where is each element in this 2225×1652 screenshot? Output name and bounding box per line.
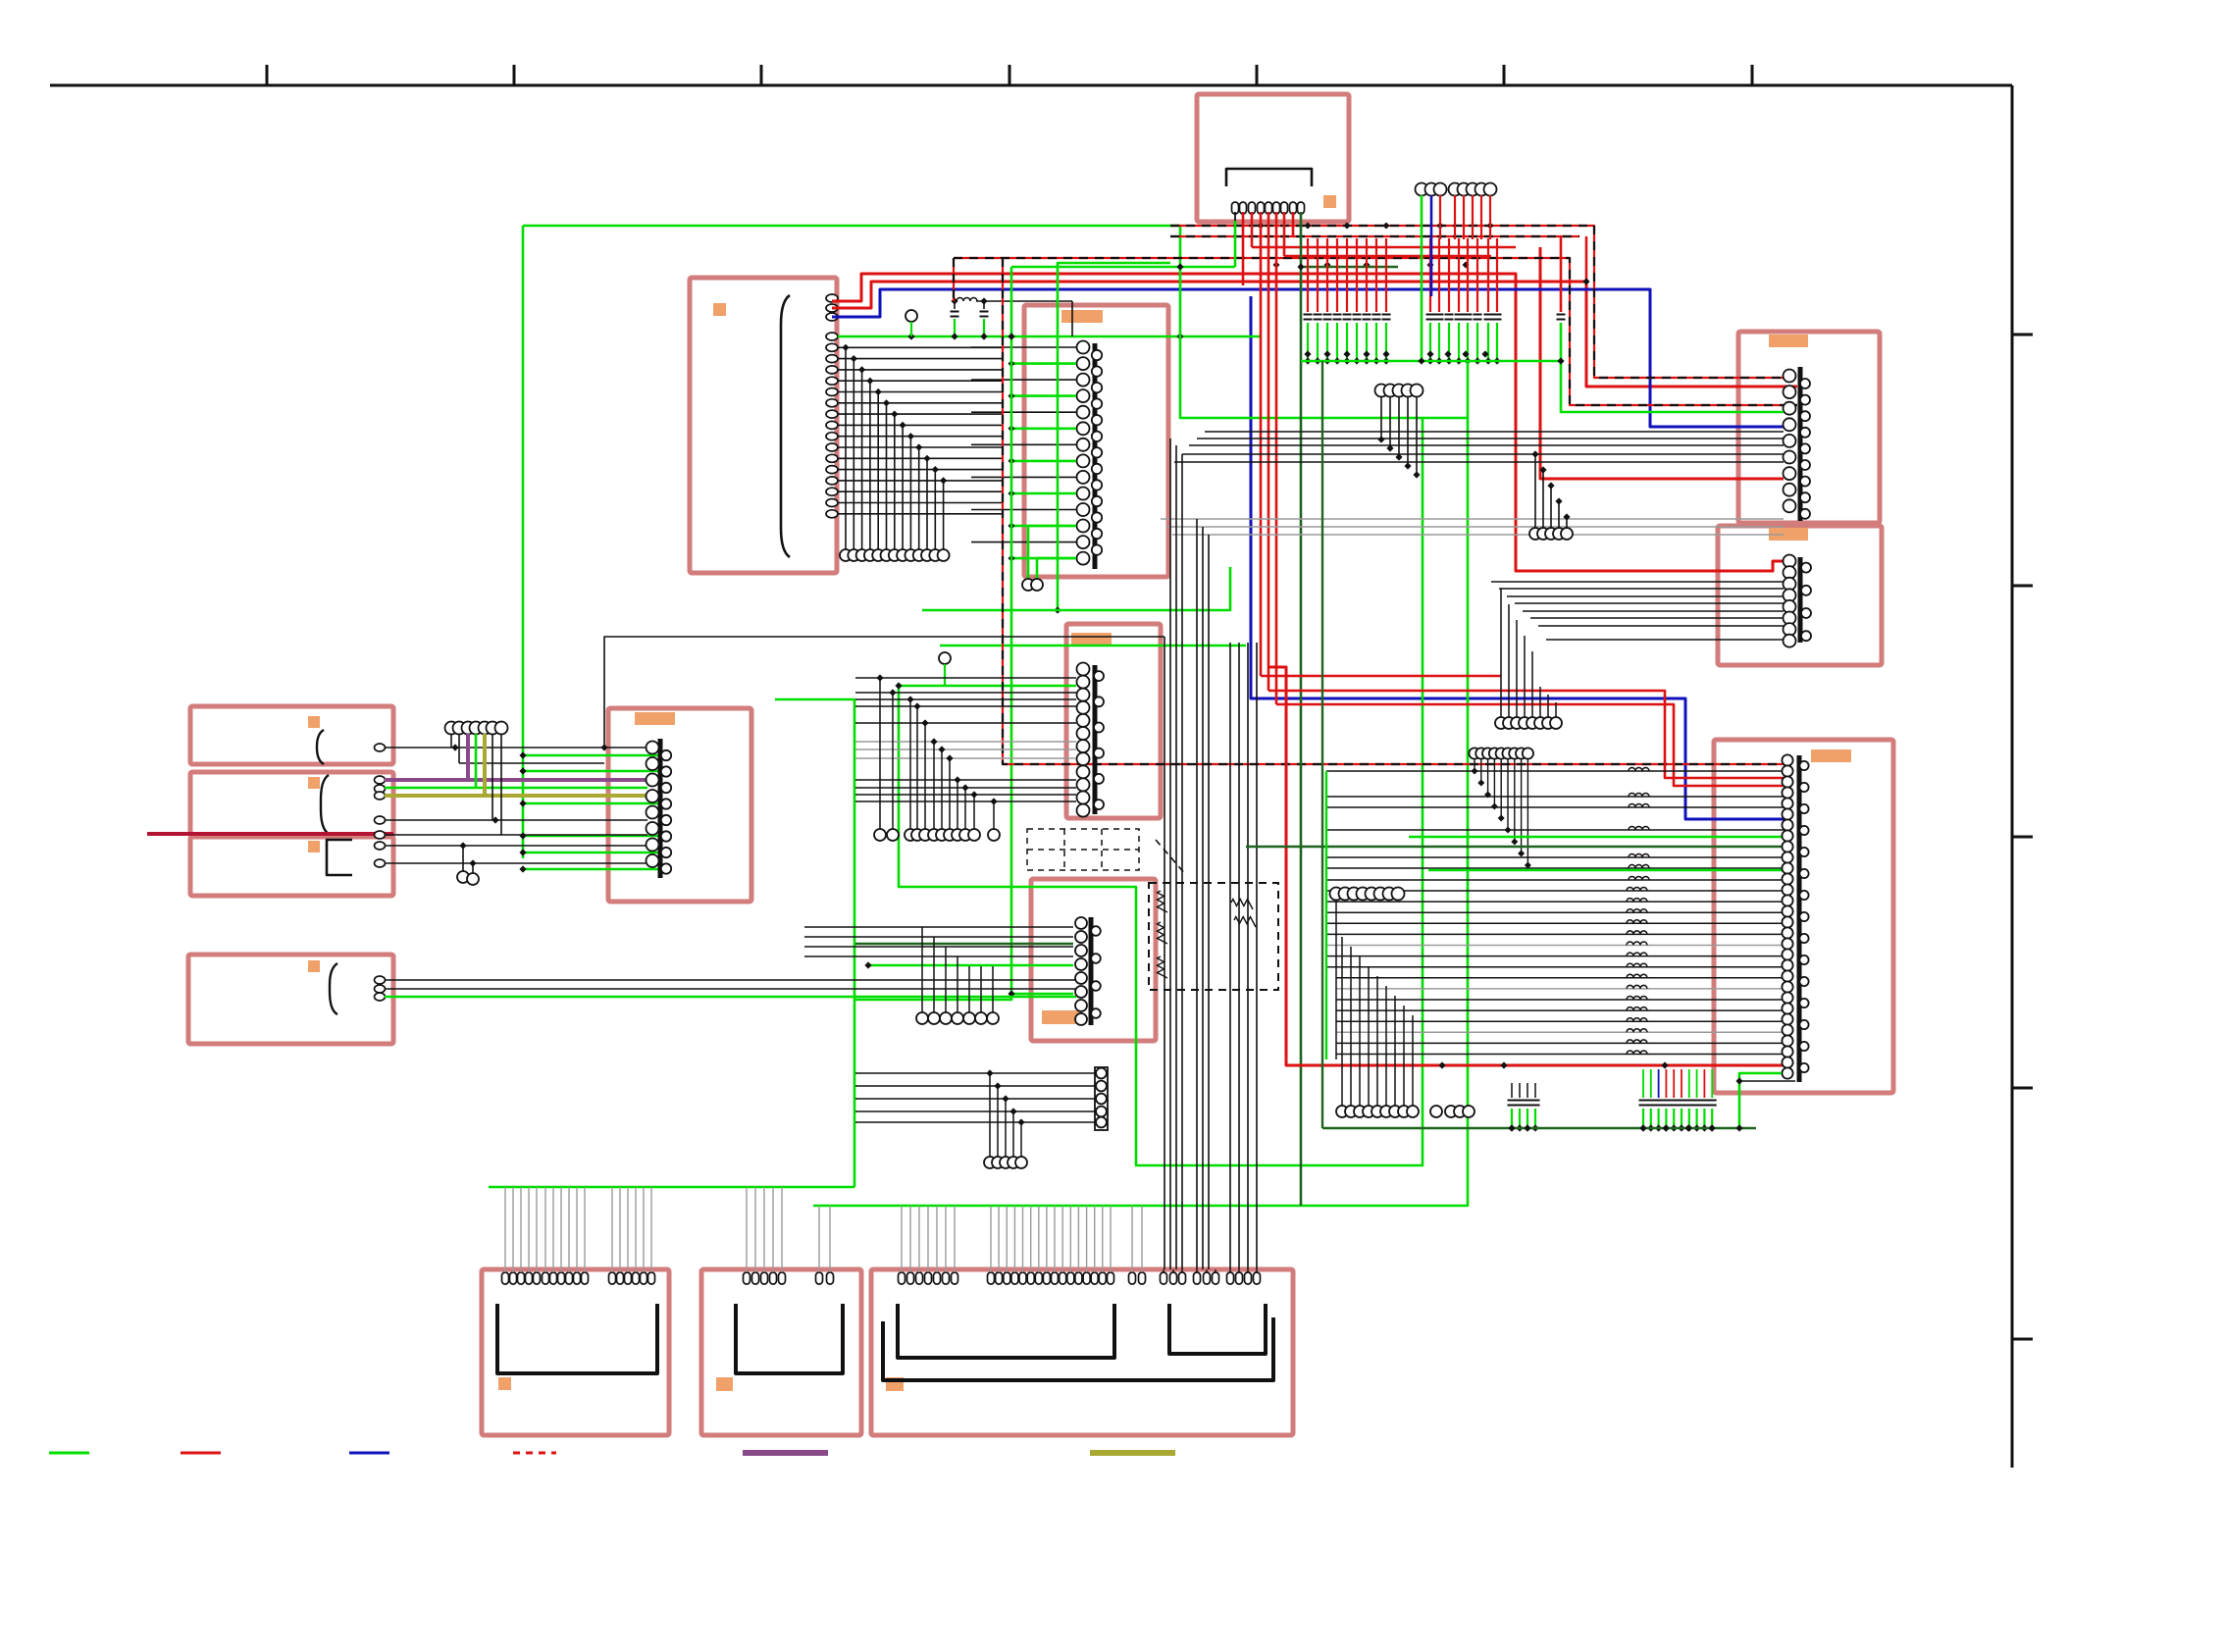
P13 group2 pin 2 lead: [829, 1206, 831, 1272]
P14 group2 pin 13: [1083, 1272, 1090, 1284]
P7c pin: [375, 859, 386, 867]
strip feeder line 5: [855, 1121, 1095, 1123]
terminal circle above P11 bundle 6: [1502, 748, 1513, 758]
P5 pin 8: [1784, 635, 1796, 647]
P12 group1 pin 9 lead: [568, 1187, 570, 1272]
P2 pin 13: [826, 433, 838, 440]
terminal circle above P11 bundle 2: [1475, 748, 1486, 758]
P11 pin 8: [1782, 830, 1792, 841]
P11 pin 17: [1782, 927, 1792, 938]
ground circle of P3 tail b: [1031, 579, 1043, 591]
P2 pin 1: [826, 294, 838, 302]
terminal drop 3: [1487, 759, 1489, 795]
P12 group1 pin 4: [526, 1272, 533, 1284]
green rail x1078: [1058, 263, 1170, 610]
green rail x1031 from top corner to lower left: [854, 267, 1011, 1000]
olive drop t5: [483, 734, 487, 796]
P11 pin 3: [1782, 776, 1792, 787]
legend wire sample olive: [1090, 1450, 1175, 1456]
ground comb under strip feeder: [986, 1069, 993, 1076]
P8 pin L6: [647, 822, 659, 835]
P12 group1 pin 5: [534, 1272, 541, 1284]
P10 pin 7: [1075, 1000, 1087, 1011]
dashed bus y241: [1170, 235, 1579, 237]
block outline P2 (upper mid-left): [690, 278, 837, 573]
staircase ground comb under P10 feeder: [921, 927, 923, 1012]
green U route lower centre: [899, 418, 1423, 1165]
decoupling capacitor with red feed: [1366, 238, 1368, 312]
wire bundle to P4 line 1: [1205, 431, 1784, 433]
black stub from P1 pin1: [1234, 212, 1236, 221]
green rail left vertical to P8: [522, 226, 525, 858]
P3 pin R10: [1092, 496, 1102, 506]
green horizontal y272: [1011, 266, 1235, 269]
P4 pin L6: [1784, 451, 1796, 464]
P6 pin 9: [1077, 765, 1090, 778]
ground drop under P4 feeder: [1539, 466, 1546, 473]
P11 pin 12: [1782, 873, 1792, 884]
wire red from P2 pin1 down to P5 pin1: [832, 274, 1784, 571]
P3 pin R12: [1092, 529, 1102, 539]
P11 pin 20: [1782, 959, 1792, 970]
P14 group2 pin 10: [1060, 1272, 1066, 1284]
wire P2 fanout line 5: [838, 391, 1002, 393]
green drop from terminal 1: [1421, 195, 1423, 361]
wire green P7b pin2 to P8: [385, 787, 647, 790]
P14 group1 pin 2 lead: [909, 1206, 911, 1272]
ground drop under P4 feeder: [1531, 450, 1538, 457]
block outline P6 (centre connector): [1066, 624, 1161, 818]
P12 group2 pin 3 lead: [627, 1187, 629, 1272]
P3 pin L3: [1077, 374, 1090, 387]
capacitor below P11 left group: [1534, 1083, 1536, 1098]
P11 pin 22: [1782, 981, 1792, 992]
U bracket b in P14: [1169, 1304, 1266, 1354]
black drop t6: [492, 734, 493, 820]
P7c pin: [375, 842, 386, 850]
label tag P5: [1769, 528, 1808, 541]
wire black into P3 pin L13: [971, 542, 1076, 543]
block outline P12 (bottom left): [482, 1269, 669, 1435]
P1 pin 7: [1281, 202, 1288, 214]
P14 group1 pin 6: [943, 1272, 950, 1284]
wire green stub into P3 pin L6: [1011, 427, 1076, 430]
wire P2 fanout line 8: [838, 424, 1002, 426]
P6 pin 11: [1077, 792, 1090, 804]
P3 pin L5: [1077, 406, 1090, 419]
red horizontal mid y718: [1276, 704, 1789, 786]
block outline P9 (lower left): [188, 955, 393, 1044]
green drop from P1 pin1: [1234, 221, 1237, 267]
wire black P7b pin5 to P8: [385, 834, 647, 836]
gray feeder lines into P4 lower pins: [1161, 518, 1784, 520]
junction dots green collector bus: [1304, 350, 1311, 357]
extra ground circle: [1430, 1106, 1442, 1117]
green lead under capacitor: [1385, 323, 1387, 361]
label tag P7a: [308, 716, 320, 728]
dark green branch right y272: [1301, 266, 1398, 268]
ground drop 13 of P2 comb: [940, 477, 947, 484]
P11 pin 19: [1782, 949, 1792, 959]
P13 group1 pin 3 lead: [763, 1187, 765, 1272]
wire green stub into P3 pin L2: [1011, 362, 1076, 365]
P11 pin 6: [1782, 808, 1792, 819]
P13 group1 pin 1 lead: [746, 1187, 748, 1272]
dashed option block grid: [1027, 829, 1139, 870]
label tag P14: [886, 1377, 904, 1391]
strip feeder line 4: [855, 1110, 1095, 1112]
connector bar in P4: [1798, 367, 1803, 521]
P3 pin L7: [1077, 439, 1090, 451]
terminal circle top centre: [1467, 183, 1479, 196]
P6 pin 12: [1077, 804, 1090, 817]
ground drop under P4 feeder: [1547, 482, 1554, 489]
wire green stub into P3 pin L4: [1011, 394, 1076, 397]
ground drop 3 of P2 comb: [858, 366, 865, 373]
wire bundle to P4 line 2: [1197, 438, 1784, 439]
inductor of filter net: [957, 298, 977, 302]
P14 right side pins tied to trunk: [1161, 1272, 1167, 1284]
P12 group1 pin 2 lead: [512, 1187, 514, 1272]
green lead under capacitor: [1429, 323, 1431, 361]
P11 pin 18: [1782, 938, 1792, 949]
capacitor below P11 right group: [1711, 1069, 1713, 1098]
P12 group2 pin 4 lead: [635, 1187, 637, 1272]
label tag P4: [1769, 335, 1808, 347]
black feeder into P10: [804, 926, 1073, 928]
P3 pin R9: [1092, 480, 1102, 490]
P2 pin 16: [826, 466, 838, 474]
P14 group2 pin 8 lead: [1046, 1206, 1048, 1272]
test point circle above green bus: [906, 310, 917, 322]
P12 group1 pin 7 lead: [552, 1187, 554, 1272]
P14 group2 pin 11 lead: [1069, 1206, 1071, 1272]
P12 group1 pin 8: [558, 1272, 565, 1284]
dashed bus mid into P4 pin R2: [954, 258, 1797, 405]
P2 pin 20: [826, 510, 838, 518]
P14 group2 pin 1 lead: [990, 1206, 992, 1272]
P12 group2 pin 2 lead: [619, 1187, 621, 1272]
P8 pin L3: [647, 774, 659, 787]
P1 pin 3: [1249, 202, 1256, 214]
black drop t2: [458, 734, 460, 763]
staircase ground comb under P6 feeder: [876, 674, 883, 681]
P14 group2 pin 16: [1108, 1272, 1114, 1284]
green lead under capacitor: [1496, 323, 1498, 361]
P14 group3 pin 2: [1139, 1272, 1146, 1284]
green stub into P8 pin: [523, 754, 659, 757]
wire P2 fanout line 14: [838, 490, 1002, 492]
P12 group2 pin 5 lead: [643, 1187, 645, 1272]
wire P2 fanout line 2: [838, 358, 1002, 360]
red drop from terminal: [1463, 195, 1465, 239]
P11 pin 26: [1782, 1024, 1792, 1035]
green lead under capacitor: [1317, 323, 1319, 361]
P14 group2 pin 6 lead: [1030, 1206, 1032, 1272]
P12 group1 pin 9: [566, 1272, 573, 1284]
P14 group2 pin 5 lead: [1022, 1206, 1024, 1272]
ground comb mid for P11 bundle: [1341, 937, 1343, 1106]
strip pin 5: [1096, 1117, 1107, 1128]
wire red from P2 pin2 to P4 pin R1: [832, 282, 1797, 387]
decoupling capacitor with red feed: [1356, 238, 1358, 312]
P13 group1 pin 5: [779, 1272, 786, 1284]
green horizontal y658: [940, 645, 1246, 647]
ground drop 8 of P2 comb: [900, 422, 906, 429]
block outline P5 (mid right): [1718, 526, 1882, 665]
strip pin 3: [1096, 1094, 1107, 1105]
capacitor below P11 left group: [1526, 1083, 1528, 1098]
connector bar in P8: [658, 739, 663, 878]
wire P2 fanout line 15: [838, 502, 1002, 504]
P13 group1 pin 4 lead: [772, 1187, 774, 1272]
P10 pin 6: [1075, 986, 1087, 998]
P3 pin L13: [1077, 536, 1090, 548]
terminal circle top centre: [1475, 183, 1488, 196]
P12 group1 pin 10 lead: [576, 1187, 578, 1272]
P12 group1 pin 1: [502, 1272, 509, 1284]
terminal circle top centre: [1416, 183, 1428, 196]
block outline P1 (top centre): [1197, 94, 1349, 222]
P14 group3 pin 2 lead: [1141, 1206, 1143, 1272]
ground circle of P3 tail a: [1022, 579, 1034, 591]
P3 pin L6: [1077, 422, 1090, 435]
P4 pin L5: [1784, 435, 1796, 447]
wire P2 fanout line 1: [838, 346, 1002, 348]
capacitor below P11 right group: [1665, 1069, 1667, 1098]
P14 group1 pin 5: [934, 1272, 941, 1284]
ground drop 5 of P2 comb: [875, 388, 882, 395]
U bracket in P13: [736, 1304, 843, 1373]
P13 group1 pin 4: [770, 1272, 777, 1284]
resistor R-d left edge: [1158, 956, 1168, 978]
P14 group2 pin 9 lead: [1054, 1206, 1056, 1272]
P12 group1 pin 11 lead: [584, 1187, 586, 1272]
P12 group1 pin 2: [510, 1272, 517, 1284]
P12 group2 pin 6 lead: [650, 1187, 652, 1272]
P11 pin 16: [1782, 916, 1792, 927]
terminal circle top centre: [1434, 183, 1447, 196]
wire bundle to P4 line 3: [1189, 444, 1784, 446]
P14 group2 pin 2 lead: [998, 1206, 1000, 1272]
P4 pin R3: [1800, 411, 1810, 421]
ground drop 6 of P2 comb: [883, 399, 890, 406]
strip feeder line 1: [855, 1072, 1095, 1074]
P3 pin R7: [1092, 447, 1102, 457]
P12 group1 pin 6 lead: [544, 1187, 546, 1272]
label tag P1: [1323, 195, 1336, 208]
dashed bus down into P11 pin1: [1003, 258, 1789, 764]
green tail from P3 bottom pin b: [1037, 558, 1076, 579]
black feeder bundle into P5: [1491, 581, 1784, 583]
P14 group2 pin 2: [996, 1272, 1003, 1284]
wire black into P3 pin L11: [971, 509, 1076, 511]
label tag P10: [1042, 1010, 1082, 1024]
top border tick 5: [1256, 65, 1259, 85]
block outline P10 (lower centre connector): [1031, 879, 1156, 1041]
P11 pin 13: [1782, 884, 1792, 895]
P12 group1 pin 1 lead: [504, 1187, 506, 1272]
P7b pin: [375, 776, 386, 784]
inductor filter bundle into P11: [1326, 770, 1784, 772]
block outline P11 (large right): [1714, 740, 1893, 1093]
decoupling capacitor with red feed: [1385, 238, 1387, 312]
P4 pin L7: [1784, 467, 1796, 480]
junction diamonds on red jungle: [1258, 223, 1265, 230]
P2 pin 6: [826, 355, 838, 363]
resistor R-e left edge: [1158, 891, 1168, 912]
brace symbol inside P2: [781, 295, 790, 557]
staircase grounds under P5 feeder: [1500, 589, 1502, 717]
black return wire over P8: [604, 637, 1164, 748]
P7b pin: [375, 816, 386, 824]
P14 group1 pin 3 lead: [918, 1206, 920, 1272]
P3 pin R1: [1092, 350, 1102, 360]
P14 group2 pin 1: [988, 1272, 995, 1284]
black feeder bundle into P6: [855, 677, 1076, 679]
connector bar in P10: [1089, 917, 1094, 1025]
connector bar in P5: [1798, 557, 1803, 643]
P3 pin L11: [1077, 503, 1090, 516]
green horizontal y622: [922, 567, 1230, 610]
wire P2 fanout line 11: [838, 457, 1002, 459]
wire black P9 pin2 long: [385, 988, 1076, 990]
P2 pin 11: [826, 410, 838, 418]
P3 pin L2: [1077, 357, 1090, 370]
P10 pin 3: [1075, 945, 1087, 956]
label tag P12: [498, 1377, 511, 1390]
terminal circles row upper for P11 bundle: [1330, 888, 1343, 901]
black stub under P11 with junction: [1739, 1080, 1795, 1082]
P2 pin 9: [826, 388, 838, 396]
wire P2 fanout line 9: [838, 436, 1002, 438]
P5 pin 4: [1784, 589, 1796, 601]
ground drop 1 of P2 comb: [842, 344, 849, 351]
green lead under capacitor: [1307, 323, 1309, 361]
P6 pin 2: [1077, 676, 1090, 689]
P14 group2 pin 5: [1019, 1272, 1026, 1284]
wire green P9 pin3 long: [385, 996, 1076, 999]
terminal circles above P7 wires: [445, 722, 458, 735]
junction on green bus: [907, 333, 914, 339]
P13 group1 pin 3: [761, 1272, 768, 1284]
decoupling capacitor with red feed: [1476, 238, 1478, 312]
wire black P7b pin4 to P8: [385, 819, 647, 821]
terminal circle above P11 bundle 9: [1523, 748, 1533, 758]
P11 pin 27: [1782, 1035, 1792, 1046]
P1 pin 8: [1290, 202, 1297, 214]
ground drop under P4 feeder: [1563, 513, 1570, 520]
green rail top-left long run: [523, 226, 1468, 1206]
P10 pin 5: [1075, 972, 1087, 984]
P4 pin R1: [1800, 379, 1810, 388]
P12 group1 pin 6: [543, 1272, 549, 1284]
ground drop pair under P7c wires: [462, 846, 464, 871]
wire blue branch down centre: [1251, 296, 1789, 819]
wire green stub into P3 pin L8: [1011, 460, 1076, 463]
P12 group2 pin 1: [609, 1272, 616, 1284]
green riser from capacitor bus: [1467, 361, 1470, 418]
P14 group2 pin 7 lead: [1038, 1206, 1040, 1272]
P12 group1 pin 11: [582, 1272, 589, 1284]
right border tick 2: [2012, 585, 2033, 588]
label tag P8: [635, 712, 675, 725]
red horizontal mid y704: [1268, 691, 1789, 778]
P14 group2 pin 7: [1035, 1272, 1042, 1284]
ground drop 9 of P2 comb: [907, 433, 914, 439]
wire P2 fanout line 16: [838, 513, 1002, 515]
P5 pin 2: [1784, 566, 1796, 579]
P14 group1 pin 6 lead: [945, 1206, 947, 1272]
P13 group1 pin 2: [752, 1272, 759, 1284]
P14 group1 pin 7: [952, 1272, 958, 1284]
decoupling capacitor with red feed: [1375, 238, 1377, 312]
P5 pin 1: [1784, 555, 1796, 568]
P14 group2 pin 16 lead: [1110, 1206, 1112, 1272]
label tag P2: [713, 303, 726, 316]
green lead under capacitor: [1458, 323, 1460, 361]
P5 pin 3: [1784, 578, 1796, 591]
red drop from P1 pin: [1268, 212, 1270, 691]
P11 pin 28: [1782, 1046, 1792, 1057]
ground drop 2 of P2 comb: [851, 355, 857, 362]
block outline P8 (left-mid connector): [608, 708, 751, 902]
filter tail down to green bus: [1071, 301, 1073, 336]
legend wire sample blue: [349, 1452, 389, 1455]
decoupling capacitor with red feed: [1467, 238, 1469, 312]
wire olive P7b pin3 to P8: [385, 794, 647, 798]
page border frame right edge: [2011, 85, 2014, 1468]
wire black P9 pin1 long: [385, 979, 1076, 981]
P3 pin L8: [1077, 454, 1090, 467]
P6 pin 6: [1077, 727, 1090, 740]
capacitor below P11 right group: [1703, 1069, 1705, 1098]
P6 pin 7: [1077, 740, 1090, 752]
P11 pin 25: [1782, 1013, 1792, 1024]
P11 pin 10: [1782, 852, 1792, 862]
P14 group2 pin 12 lead: [1077, 1206, 1079, 1272]
strip pin 4: [1096, 1107, 1107, 1117]
decoupling capacitor with red feed: [1346, 238, 1348, 312]
wire black into P3 pin L1: [971, 346, 1076, 348]
block outline P7b (left row 2): [190, 772, 393, 836]
purple drop t3: [466, 734, 470, 780]
central black trunk verticals: [1164, 637, 1165, 1269]
P11 pin 29: [1782, 1057, 1792, 1067]
P2 pin 3: [826, 313, 838, 321]
P10 pin 8: [1075, 1013, 1087, 1025]
P4 pin R2: [1800, 395, 1810, 405]
P11 pin 5: [1782, 798, 1792, 808]
red step horizontal y261: [1284, 255, 1491, 258]
green from capacitor leg into P4 pin: [1561, 323, 1784, 412]
terminal circle above P11 bundle 5: [1496, 748, 1507, 758]
dashed resistor block right: [1149, 883, 1278, 990]
resistor R-c left edge: [1158, 922, 1168, 944]
green lead under capacitor: [1366, 323, 1368, 361]
P10 pin 2: [1075, 931, 1087, 943]
wire P2 fanout line 10: [838, 446, 1002, 448]
P14 group1 pin 1: [899, 1272, 906, 1284]
green stub into P8 pin: [523, 835, 659, 838]
label tag P13: [716, 1377, 733, 1391]
P14 group2 pin 15: [1099, 1272, 1106, 1284]
decoupling capacitor with red feed: [1448, 238, 1450, 312]
P3 pin L10: [1077, 488, 1090, 500]
strip feeder line 2: [855, 1085, 1095, 1087]
top border tick 1: [266, 65, 269, 85]
P14 group2 pin 9: [1052, 1272, 1059, 1284]
